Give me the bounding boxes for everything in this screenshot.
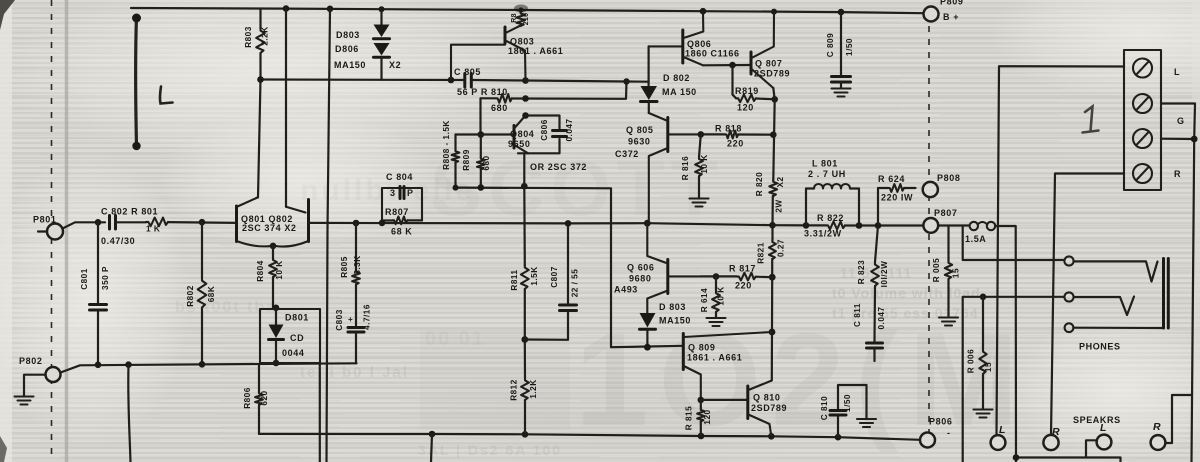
- wire output line: [773, 224, 924, 227]
- svg-text:4.7/16: 4.7/16: [363, 304, 372, 330]
- svg-text:R 822: R 822: [817, 213, 844, 223]
- handwritten L: [160, 87, 173, 104]
- transistor Q606: [614, 223, 701, 313]
- svg-text:C 809: C 809: [826, 33, 835, 57]
- resistor R817: [701, 264, 772, 291]
- svg-text:C807: C807: [550, 266, 559, 288]
- svg-text:Q 809: Q 809: [688, 343, 716, 353]
- phone jack sleeve: [1164, 259, 1169, 329]
- svg-text:R: R: [1052, 426, 1060, 438]
- svg-text:R804: R804: [256, 260, 265, 282]
- terminal strip: [1124, 50, 1185, 190]
- svg-text:R 816: R 816: [681, 156, 690, 180]
- capacitor C802: [101, 207, 158, 247]
- svg-text:C 805: C 805: [454, 67, 481, 77]
- svg-text:R 005: R 005: [932, 258, 941, 282]
- node R804/D801 junction: [273, 305, 280, 312]
- paper mottling: [0, 0, 520, 160]
- resistor R803: [244, 9, 270, 80]
- svg-text:R 006: R 006: [967, 349, 976, 373]
- resistor R804: [256, 246, 284, 308]
- svg-text:R 624: R 624: [878, 174, 905, 184]
- svg-text:R808 - 1.5K: R808 - 1.5K: [442, 120, 451, 170]
- transistor Q806: [649, 11, 740, 65]
- scan margin dashed line: [51, 0, 53, 462]
- svg-text:1860 C1166: 1860 C1166: [685, 49, 740, 59]
- svg-text:P809: P809: [940, 0, 963, 7]
- node input dots: [95, 219, 102, 226]
- connector P808: [923, 173, 961, 197]
- wire phones ring feed / common: [963, 297, 1065, 462]
- svg-text:220: 220: [735, 281, 752, 291]
- svg-text:D 802: D 802: [663, 73, 690, 83]
- dashed rail at connectors: [928, 26, 930, 432]
- wire terminal G tie: [1161, 104, 1195, 462]
- svg-text:0.27: 0.27: [777, 239, 786, 257]
- svg-text:R 818: R 818: [715, 124, 742, 134]
- svg-text:C 811: C 811: [853, 303, 862, 327]
- svg-text:P: P: [407, 188, 414, 198]
- resistor R802: [186, 222, 216, 364]
- svg-text:350 P: 350 P: [101, 266, 110, 290]
- svg-text:2.2K: 2.2K: [261, 26, 270, 45]
- svg-text:Q 810: Q 810: [753, 393, 781, 403]
- resistor R811: [510, 186, 539, 339]
- svg-text:PHONES: PHONES: [1079, 342, 1121, 352]
- svg-text:L 801: L 801: [812, 159, 838, 169]
- resistor R815: [685, 400, 713, 436]
- node Q804 collector junction: [522, 112, 529, 119]
- svg-text:R: R: [1174, 169, 1181, 179]
- wire input line: [63, 222, 106, 228]
- svg-text:C 804: C 804: [386, 172, 413, 182]
- svg-text:2SC 374 X2: 2SC 374 X2: [242, 223, 297, 233]
- svg-text:R805: R805: [340, 256, 349, 278]
- svg-text:1/50: 1/50: [845, 38, 854, 56]
- node Q809 emitter junction: [698, 397, 705, 404]
- connector P806: [920, 417, 952, 448]
- resistor R821: [757, 225, 786, 277]
- svg-text:120: 120: [703, 409, 712, 424]
- svg-text:P802: P802: [19, 356, 42, 366]
- wire fused feed down to speakers: [995, 226, 1120, 462]
- wire D802 anode stem: [647, 46, 649, 86]
- svg-text:1.2K: 1.2K: [529, 379, 538, 398]
- diode D806: [334, 43, 401, 80]
- wire D801 box right edge drop: [319, 363, 321, 462]
- svg-text:3.31/2W: 3.31/2W: [804, 229, 842, 239]
- phone jack contact 3: [1065, 323, 1164, 332]
- svg-text:D806: D806: [335, 44, 359, 54]
- node D803/Q809 base junction: [644, 344, 651, 351]
- svg-text:680: 680: [482, 155, 491, 170]
- wire: [116, 221, 147, 223]
- svg-text:R 614: R 614: [700, 288, 709, 312]
- svg-text:R 823: R 823: [857, 260, 866, 284]
- svg-text:22 / 55: 22 / 55: [571, 269, 580, 298]
- capacitor C807: [525, 223, 580, 339]
- svg-text:X2: X2: [389, 60, 401, 70]
- wire R810 left drop: [479, 98, 481, 134]
- svg-text:2 . 7 UH: 2 . 7 UH: [808, 169, 846, 179]
- svg-text:R802: R802: [186, 285, 195, 307]
- svg-text:15: 15: [952, 268, 961, 278]
- resistor R816 to ground: [681, 134, 709, 206]
- wire Q804 emitter drop: [523, 153, 525, 186]
- svg-text:56 P R 810: 56 P R 810: [457, 87, 508, 97]
- wire lower rail: [61, 363, 357, 372]
- resistor R614 to ground: [700, 277, 726, 327]
- svg-text:2W: 2W: [775, 199, 784, 212]
- svg-text:10 K: 10 K: [717, 286, 726, 305]
- svg-text:1861 . A661: 1861 . A661: [687, 353, 742, 363]
- wire drop to lower channel: [128, 365, 130, 462]
- svg-text:X2: X2: [776, 176, 785, 187]
- svg-text:L: L: [1174, 67, 1180, 77]
- node speaker feed junction: [1013, 454, 1020, 461]
- svg-text:tel i b0 l Jal: tel i b0 l Jal: [300, 364, 409, 381]
- resistor R005 to ground: [932, 226, 961, 326]
- svg-text:G: G: [1177, 116, 1185, 126]
- wire P807 to fuse: [938, 224, 969, 226]
- resistor R805: [340, 223, 362, 326]
- svg-text:0044: 0044: [282, 348, 304, 358]
- diode D803: [336, 9, 390, 40]
- resistor R810: [457, 82, 627, 114]
- grey fold line: [65, 0, 69, 462]
- resistor R813 collector blob: [511, 5, 530, 26]
- svg-text:0.47/30: 0.47/30: [101, 236, 135, 246]
- svg-text:D803: D803: [336, 30, 360, 40]
- svg-text:1861 . A661: 1861 . A661: [508, 46, 563, 56]
- resistor R809: [462, 135, 491, 188]
- svg-text:R807: R807: [385, 207, 409, 217]
- svg-text:R806: R806: [243, 387, 252, 409]
- GHOSTS: [175, 144, 1028, 458]
- svg-text:R819: R819: [735, 86, 759, 96]
- resistor R823: [857, 226, 889, 342]
- svg-text:C 810: C 810: [820, 396, 829, 420]
- svg-text:1.5A: 1.5A: [965, 234, 986, 244]
- svg-text:10 K: 10 K: [700, 154, 709, 173]
- resistor R812: [510, 340, 539, 435]
- svg-text:1.5K: 1.5K: [530, 266, 539, 285]
- svg-text:P808: P808: [937, 173, 960, 183]
- wire emitter bus to Q809 base: [456, 188, 684, 348]
- capacitor C806 loop: [518, 116, 574, 154]
- svg-text:D 803: D 803: [659, 302, 686, 312]
- wire Q804 base line: [456, 133, 514, 135]
- svg-text:220: 220: [727, 139, 744, 149]
- dark pen stroke top-left: [134, 16, 138, 146]
- svg-text:SPEAKRS: SPEAKRS: [1073, 415, 1121, 425]
- svg-text:Q806: Q806: [687, 39, 711, 49]
- wire Q802 collector: [285, 9, 287, 207]
- svg-text:Q 807: Q 807: [755, 59, 783, 69]
- node Q807 emitter junction: [771, 96, 778, 103]
- node rail junction dots: [283, 5, 290, 12]
- capacitor C804 / resistor R807 box: [382, 172, 422, 237]
- svg-text:9680: 9680: [629, 274, 651, 284]
- wire Q806 emitter to Q807 base: [703, 64, 751, 67]
- svg-text:C372: C372: [615, 149, 639, 159]
- svg-text:9650: 9650: [508, 139, 530, 149]
- fuse 1.5A: [965, 222, 995, 244]
- node Q809 collector junction: [769, 329, 776, 336]
- svg-text:R812: R812: [510, 379, 519, 401]
- wire Q801 collector: [258, 80, 261, 198]
- resistor R819: [733, 65, 775, 112]
- svg-text:R 817: R 817: [729, 264, 756, 274]
- wire B+ top rail: [131, 8, 924, 13]
- connector P801: [33, 215, 63, 240]
- svg-text:MA 150: MA 150: [662, 87, 697, 97]
- wire Q810 base line: [701, 399, 748, 401]
- svg-text:210: 210: [523, 13, 530, 26]
- node R811/R812/C807 junction: [521, 336, 528, 343]
- capacitor C805: [454, 67, 481, 87]
- svg-text:P807: P807: [934, 208, 957, 218]
- speaker jack R2: [1151, 395, 1192, 450]
- svg-text:620: 620: [260, 390, 269, 405]
- resistor R818: [701, 124, 773, 149]
- node R821/R817 junction: [769, 274, 776, 281]
- svg-text:2SD789: 2SD789: [751, 403, 787, 413]
- resistor R808: [442, 120, 459, 187]
- svg-text:R809: R809: [462, 149, 471, 171]
- wire terminal R feed: [1051, 174, 1124, 435]
- resistor R801: [146, 218, 168, 234]
- svg-text:10 K: 10 K: [275, 260, 284, 279]
- wire drop at 432: [431, 434, 432, 462]
- capacitor C803: [335, 304, 372, 363]
- handwritten 1: [1083, 107, 1099, 133]
- wire to Q801 base: [168, 221, 237, 224]
- svg-text:t0 Volume with l0ad: t0 Volume with l0ad: [832, 285, 981, 301]
- wire y80 node line: [261, 78, 465, 81]
- capacitor C809: [826, 12, 854, 96]
- corner blobs: [0, 0, 15, 30]
- svg-text:A493: A493: [614, 285, 638, 295]
- transistor Q809: [683, 332, 772, 400]
- svg-text:-: -: [947, 428, 951, 438]
- wire terminal L feed: [997, 66, 1125, 435]
- svg-text:CD: CD: [290, 333, 304, 343]
- wire Q806 base feed: [526, 81, 649, 82]
- svg-text:Q 805: Q 805: [626, 125, 654, 135]
- svg-text:220 IW: 220 IW: [881, 193, 913, 203]
- diode D802: [641, 73, 697, 113]
- transistor Q801 Q802 dual envelope: [237, 198, 309, 250]
- transistor Q805: [615, 113, 701, 223]
- svg-text:MA150: MA150: [334, 60, 366, 70]
- node Q807 base junction: [729, 62, 736, 69]
- resistor R624: [878, 174, 916, 226]
- diode D801 box: [260, 309, 320, 363]
- capacitor C810: [820, 385, 876, 437]
- speaker jack L2: [1086, 422, 1111, 458]
- svg-text:15: 15: [984, 362, 993, 372]
- svg-text:C 802 R 801: C 802 R 801: [101, 207, 158, 217]
- svg-text:R821: R821: [757, 242, 766, 264]
- resistor R822: [804, 213, 845, 239]
- connector P807: [923, 208, 957, 233]
- wire rail to Q810: [771, 277, 774, 380]
- svg-text:+: +: [348, 315, 353, 324]
- capacitor C811: [853, 303, 886, 361]
- svg-text:120: 120: [737, 103, 754, 113]
- svg-text:0.047: 0.047: [565, 119, 574, 142]
- svg-text:3.3K: 3.3K: [353, 255, 362, 274]
- svg-text:1 K: 1 K: [146, 225, 160, 234]
- svg-text:2SD789: 2SD789: [754, 69, 790, 79]
- svg-text:9630: 9630: [628, 137, 650, 147]
- svg-text:R8: R8: [511, 13, 518, 23]
- svg-text:1/50: 1/50: [843, 394, 852, 412]
- svg-text:P801: P801: [33, 215, 56, 225]
- wire feedback line: [309, 223, 773, 225]
- node R006 junction: [980, 294, 987, 301]
- svg-text:R 815: R 815: [685, 406, 694, 430]
- svg-text:R 820: R 820: [755, 172, 764, 196]
- svg-text:0.047: 0.047: [877, 307, 886, 330]
- wire phones tip feed: [963, 226, 1065, 260]
- svg-text:C803: C803: [335, 309, 344, 331]
- resistor R006 to ground: [967, 297, 994, 418]
- inductor L801: [806, 159, 859, 226]
- svg-text:C801: C801: [80, 268, 89, 290]
- transistor Q807: [751, 12, 790, 88]
- svg-text:P806: P806: [929, 417, 952, 427]
- svg-text:3AL | Ds2 6A 100: 3AL | Ds2 6A 100: [418, 442, 562, 458]
- svg-text:68K: 68K: [207, 286, 216, 303]
- phone jack contact 1: [1064, 256, 1157, 281]
- svg-text:R811: R811: [510, 269, 519, 290]
- svg-text:MA150: MA150: [659, 316, 691, 326]
- transistor Q810: [748, 381, 787, 437]
- svg-text:R: R: [1153, 421, 1161, 433]
- resistor R806: [243, 365, 269, 434]
- node terminal G junction: [1191, 136, 1198, 143]
- svg-text:680: 680: [491, 103, 508, 113]
- svg-text:68 K: 68 K: [391, 227, 412, 237]
- wire long vertical to lower channel: [327, 9, 331, 462]
- resistor R820 output rail: [755, 88, 785, 225]
- svg-text:Q804: Q804: [510, 129, 534, 139]
- connector P802 with ground: [15, 356, 61, 405]
- svg-text:C806: C806: [540, 119, 549, 141]
- phone jack contact 2: [1064, 292, 1134, 315]
- transistor Q803: [451, 26, 563, 81]
- svg-text:I0I/2W: I0I/2W: [880, 261, 889, 288]
- wire bottom rail B-: [259, 434, 920, 440]
- speaker jack L1: [991, 424, 1006, 450]
- speaker jack R1: [1043, 426, 1060, 450]
- svg-text:R803: R803: [244, 26, 253, 48]
- capacitor C801: [80, 222, 110, 364]
- node R614 junction: [713, 273, 720, 280]
- transistor Q804: [508, 116, 534, 154]
- connector P809: [924, 0, 964, 22]
- svg-text:3: 3: [390, 188, 396, 198]
- svg-text:OR 2SC 372: OR 2SC 372: [530, 162, 587, 172]
- svg-text:D801: D801: [285, 313, 309, 323]
- diode D803 lower: [640, 302, 692, 347]
- svg-text:L: L: [999, 424, 1006, 436]
- svg-text:Q 606: Q 606: [627, 263, 655, 273]
- svg-text:B +: B +: [943, 12, 959, 22]
